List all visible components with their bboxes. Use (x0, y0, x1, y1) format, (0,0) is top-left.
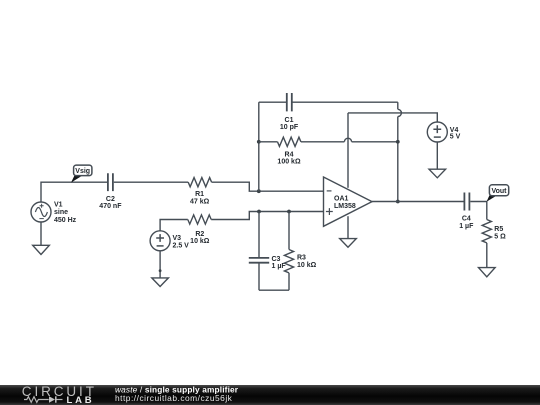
svg-text:R3: R3 (297, 255, 306, 262)
svg-text:C2: C2 (106, 196, 115, 203)
resistor R1 (188, 178, 211, 187)
svg-text:Vsig: Vsig (75, 168, 90, 175)
svg-text:LAB: LAB (67, 395, 95, 405)
footer bar (0, 385, 540, 405)
capacitor C4 (464, 193, 469, 211)
wire (160, 220, 188, 231)
svg-text:OA1: OA1 (334, 196, 349, 203)
V3 value label (173, 235, 190, 250)
V1 value label (54, 201, 77, 223)
svg-text:470 nF: 470 nF (99, 203, 122, 210)
ground (152, 278, 169, 287)
C4 value label (459, 216, 474, 231)
node junction (257, 189, 261, 193)
R5 value label (494, 226, 506, 240)
wire (348, 113, 437, 122)
wire (212, 182, 324, 191)
svg-text:5 Ω: 5 Ω (494, 233, 506, 240)
wire (372, 201, 464, 203)
op-amp OA1 (324, 113, 373, 239)
capacitor C3 (249, 212, 269, 291)
voltage source V4 (427, 122, 447, 142)
svg-text:1 µF: 1 µF (272, 263, 287, 270)
C3 value label (272, 256, 287, 270)
svg-text:V3: V3 (173, 235, 182, 242)
R4 value label (277, 152, 301, 166)
wire (486, 243, 488, 268)
svg-text:R4: R4 (285, 152, 294, 159)
wire (211, 212, 323, 220)
svg-text:47 kΩ: 47 kΩ (190, 199, 210, 206)
node junction (257, 140, 261, 144)
voltage source V1 (31, 202, 51, 222)
svg-text:C1: C1 (285, 117, 294, 124)
ground (429, 169, 446, 178)
ground (340, 239, 357, 248)
V4 value label (450, 127, 461, 141)
svg-text:sine: sine (54, 209, 68, 216)
voltage source V3 (150, 231, 170, 251)
svg-text:10 kΩ: 10 kΩ (190, 238, 210, 245)
svg-text:R2: R2 (195, 231, 204, 238)
node junction (396, 140, 400, 144)
node junction (287, 210, 291, 214)
svg-text:C4: C4 (462, 216, 471, 223)
svg-text:Vout: Vout (491, 188, 507, 195)
capacitor C1 (259, 93, 398, 111)
R3 value label (297, 255, 317, 270)
wire (398, 102, 402, 201)
R1 value label (190, 191, 210, 206)
resistor R5 (482, 220, 491, 243)
node junction (159, 269, 162, 272)
flag Vsig (71, 165, 92, 183)
svg-text:100 kΩ: 100 kΩ (277, 159, 301, 166)
svg-text:10 kΩ: 10 kΩ (297, 262, 317, 269)
svg-text:LM358: LM358 (334, 203, 356, 210)
svg-text:V1: V1 (54, 201, 63, 208)
C1 value label (280, 117, 299, 131)
wire (41, 182, 107, 202)
R2 value label (190, 231, 210, 245)
wire (258, 102, 260, 191)
svg-text:10 pF: 10 pF (280, 124, 299, 131)
svg-text:C3: C3 (272, 256, 281, 263)
wire (114, 181, 188, 183)
wire (159, 251, 161, 278)
capacitor C2 (108, 173, 113, 191)
svg-text:http://circuitlab.com/czu56jk: http://circuitlab.com/czu56jk (115, 393, 233, 403)
resistor R3 (284, 212, 293, 291)
wire (259, 289, 289, 291)
svg-text:450 Hz: 450 Hz (54, 217, 77, 224)
resistor R2 (188, 215, 211, 224)
svg-text:R5: R5 (494, 226, 503, 233)
svg-text:1 µF: 1 µF (459, 223, 474, 230)
svg-text:R1: R1 (195, 191, 204, 198)
ground (479, 268, 496, 277)
C2 value label (99, 196, 122, 210)
wire (436, 142, 438, 169)
node junction (396, 200, 400, 204)
node junction (257, 210, 261, 214)
ground (33, 245, 50, 254)
wire (470, 202, 487, 220)
wire (40, 222, 42, 245)
flag Vout (487, 185, 509, 202)
svg-text:2.5 V: 2.5 V (173, 243, 190, 250)
svg-text:5 V: 5 V (450, 134, 461, 141)
resistor R4 (259, 137, 398, 146)
CircuitLab logo (22, 384, 97, 405)
